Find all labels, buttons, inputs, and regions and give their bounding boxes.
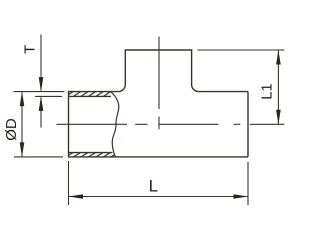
arrowhead L1 up [276,50,281,65]
pipe right end face [247,92,249,157]
vertical centerline of branch [158,37,160,130]
horizontal centerline of run (also L1 lower extension) [57,123,285,125]
dimension L1: top extension line [197,49,284,51]
break line (wavy) [111,92,119,157]
branch outlet top face [125,49,193,51]
dimension T: upper leader line [40,35,42,91]
dimension T: lower leader line [40,98,42,128]
hatch bottom wall section [64,151,120,158]
pipe left end face [68,91,70,158]
arrowhead L1 down [276,110,281,125]
arrowhead L right [234,194,249,199]
pipe bottom inner wall line [69,152,113,154]
pipe top inner wall line [69,95,112,97]
branch outlet left side with fillet [118,50,125,92]
dimension L1: dimension line [277,51,279,124]
svg-text:T: T [22,45,39,54]
pipe top outer wall line (left of branch) [69,91,119,93]
arrowhead OD up [20,92,25,107]
pipe top outer wall line (right of branch) [199,91,248,93]
dimension L: right extension line [247,162,249,205]
svg-text:ØD: ØD [3,118,20,141]
branch outlet right side with fillet [192,50,199,92]
hatch top wall section [64,90,120,97]
dimension T: extension line at outer wall (shared with OD top extension) [14,91,65,93]
dimension L: dimension line [69,196,249,198]
arrowhead OD down [20,142,25,157]
svg-text:L: L [149,177,158,196]
arrowhead T down at outer wall [39,77,44,92]
pipe bottom outer wall line [69,156,249,158]
dimension T: extension line at inner wall [35,95,62,97]
svg-text:L1: L1 [260,83,276,99]
dimension OD: bottom extension line [14,156,63,158]
arrowhead L left [69,194,84,199]
dimension L: left extension line [68,161,70,205]
dimension OD: dimension line [21,92,23,156]
arrowhead T up at inner wall [39,96,44,111]
